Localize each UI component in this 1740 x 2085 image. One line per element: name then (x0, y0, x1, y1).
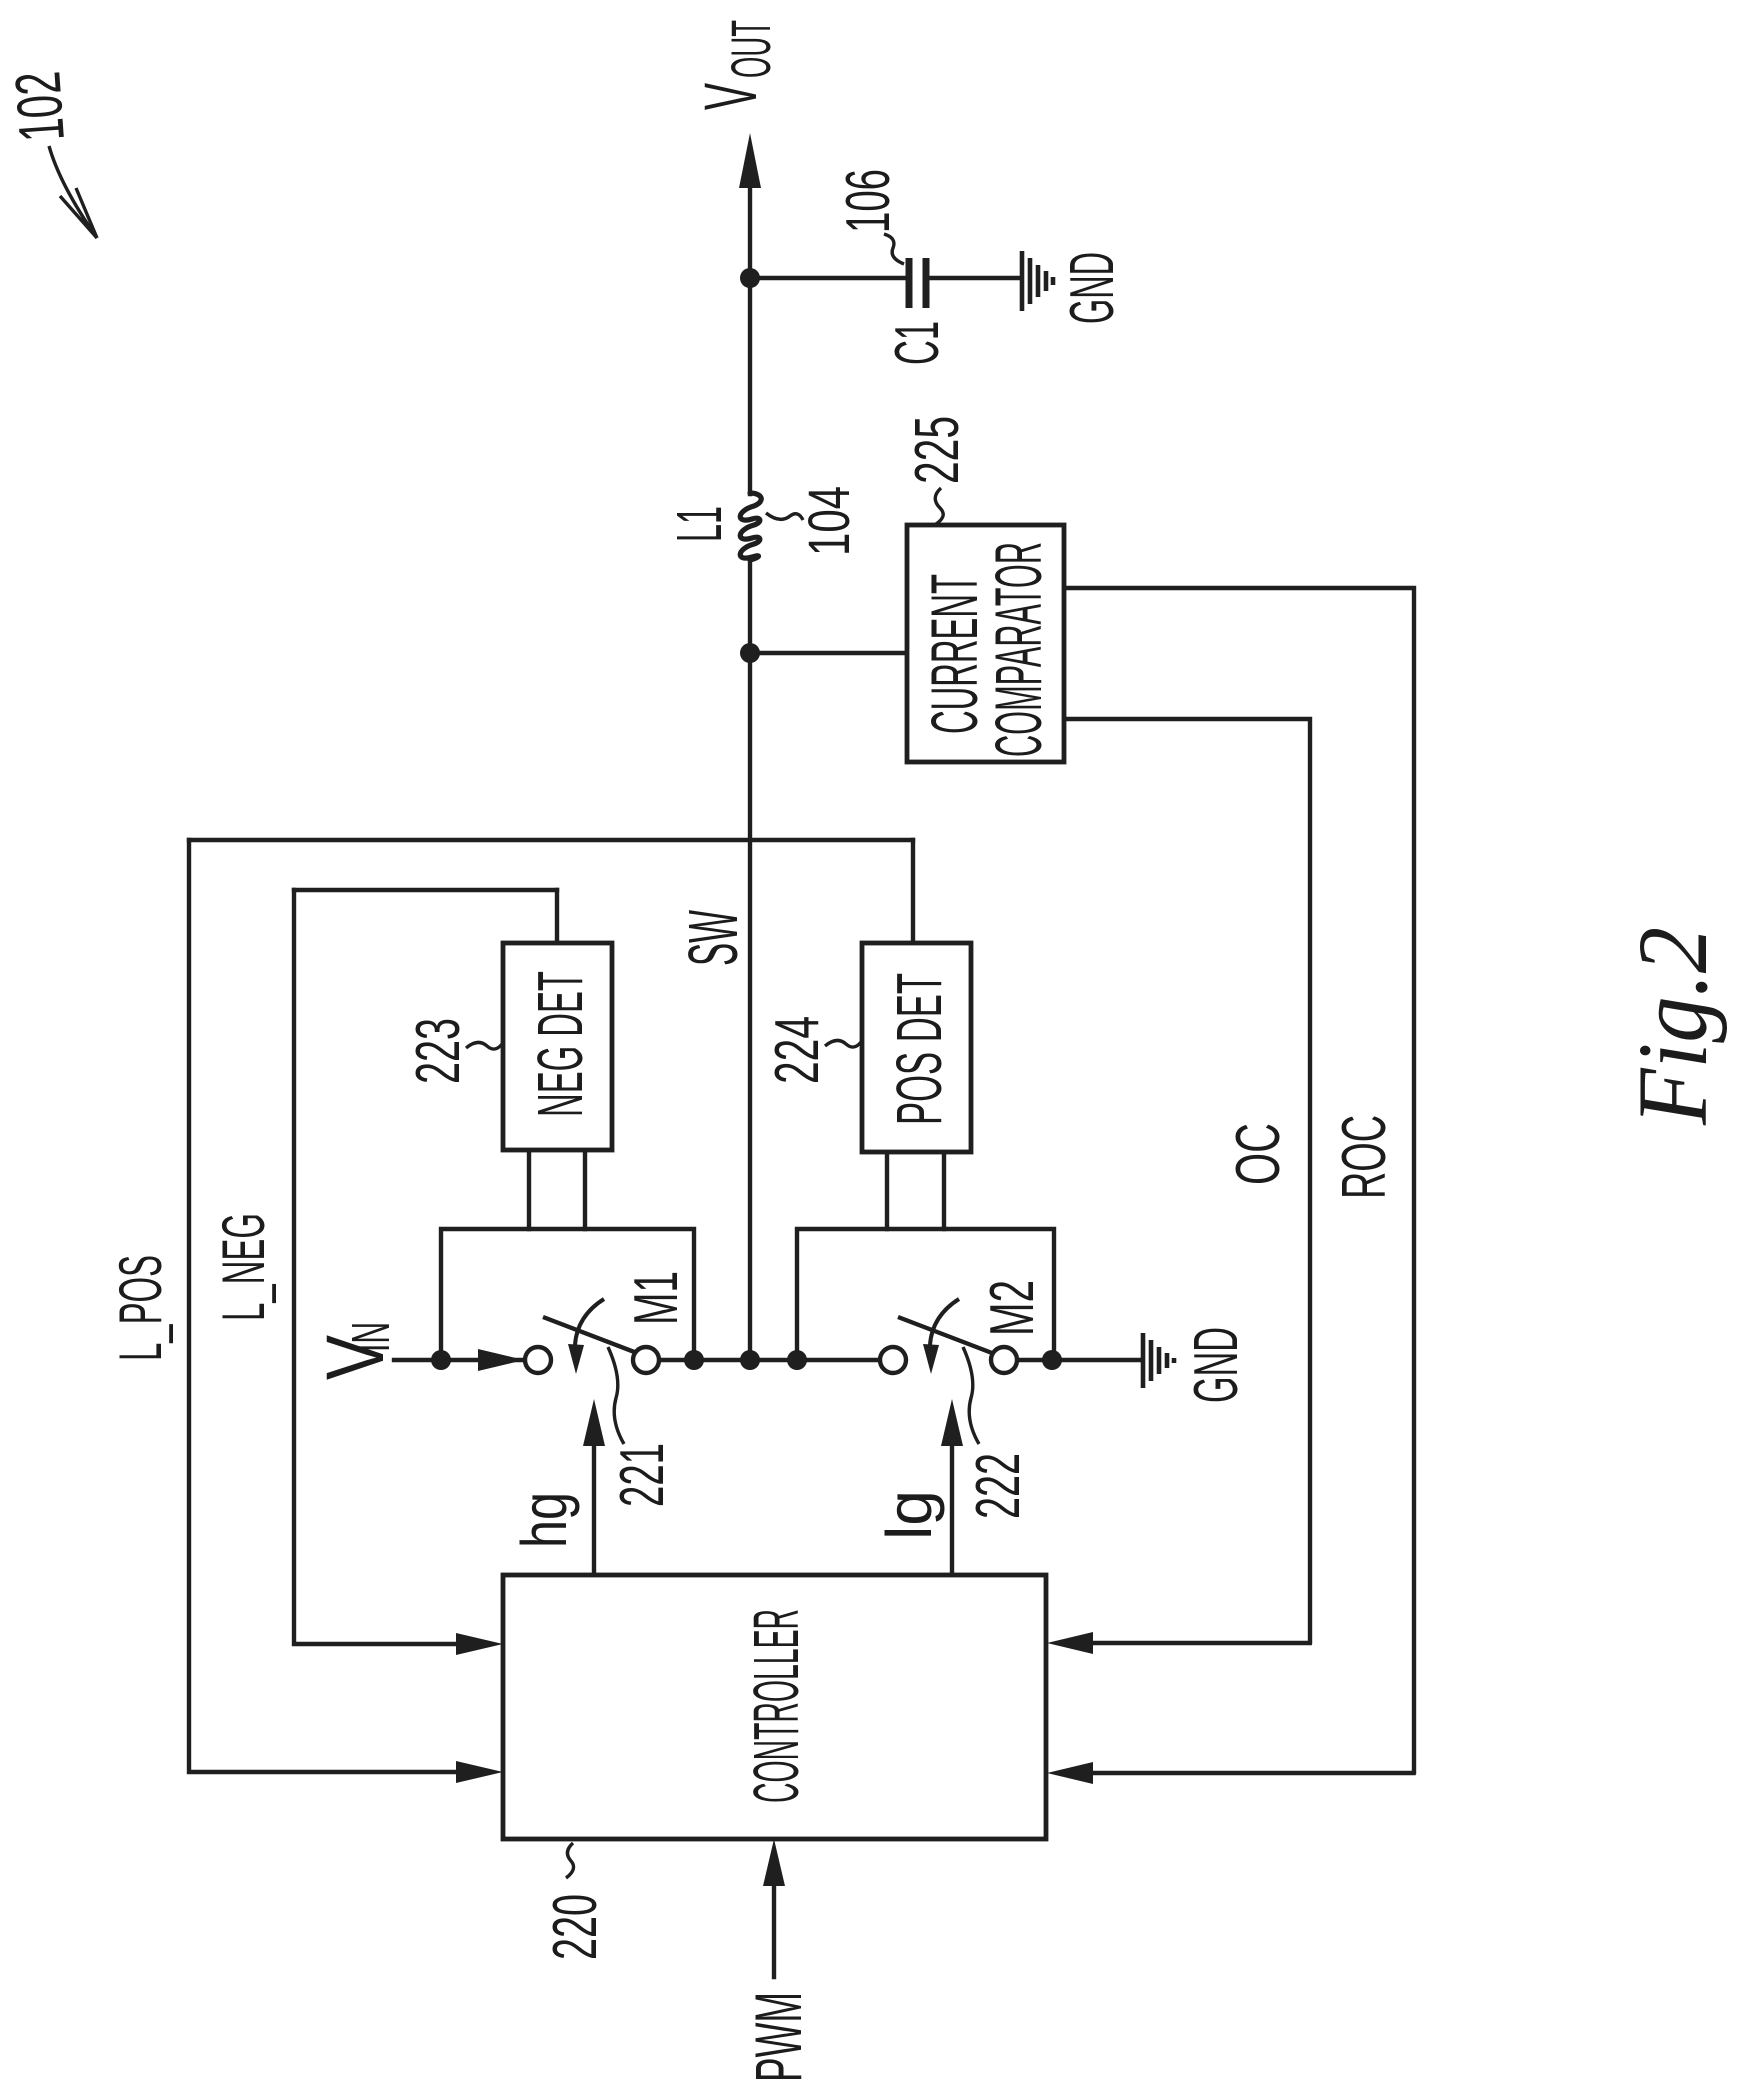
wire SW node to current comparator input (750, 651, 907, 655)
wire L_POS loop top (189, 838, 913, 842)
junction node at SW / comparator tap (740, 643, 760, 663)
wire L_NEG left rail (294, 890, 456, 1644)
box controller 220 (503, 1575, 1046, 1839)
wire M1 sense bracket (441, 1229, 694, 1360)
leader squiggle for 225 (935, 488, 943, 524)
svg-text:102: 102 (1, 69, 78, 144)
svg-text:OUT: OUT (719, 20, 782, 78)
wire NEG DET bottom stub left (527, 1150, 531, 1229)
svg-text:Fig.2: Fig.2 (1617, 927, 1728, 1126)
svg-text:221: 221 (608, 1443, 677, 1507)
switch M1 actuation arc arrow (575, 1299, 604, 1345)
wire VIN lead to M1 left contact (394, 1358, 525, 1362)
wire node Vout to C1 (750, 276, 906, 280)
arrowhead ROC into controller (1047, 1762, 1093, 1784)
wire NEG DET bottom stub right (583, 1150, 587, 1229)
svg-text:L_NEG: L_NEG (210, 1213, 277, 1321)
box NEG DET 223 (503, 943, 612, 1150)
leader squiggle for 104 (766, 513, 803, 520)
wire L_POS left rail (189, 840, 456, 1772)
svg-text:hg: hg (508, 1492, 580, 1548)
wire PWM input lead (772, 1884, 776, 1977)
arrowhead hg up (583, 1399, 605, 1446)
svg-text:224: 224 (763, 1016, 832, 1084)
svg-text:220: 220 (541, 1894, 610, 1960)
wire M2 sense bracket (797, 1229, 1054, 1360)
svg-text:223: 223 (404, 1018, 473, 1084)
svg-text:COMPARATOR: COMPARATOR (981, 542, 1055, 757)
svg-text:M2: M2 (978, 1280, 1047, 1336)
leader squiggle for 106 (884, 234, 904, 264)
svg-text:V: V (689, 83, 772, 110)
arrowhead L_POS into controller (456, 1761, 503, 1783)
wire L_NEG loop top (294, 888, 557, 892)
wire C1 to ground (929, 276, 1020, 280)
svg-text:ROC: ROC (1330, 1115, 1399, 1199)
svg-text:GND: GND (1058, 252, 1127, 324)
arrowhead OC into controller (1047, 1632, 1093, 1654)
wire M2 right contact to ground (1017, 1358, 1141, 1362)
wire L_NEG drop to NEG DET top (555, 890, 559, 943)
wire OC from comparator to controller (1064, 719, 1310, 1643)
arrowhead lg up (941, 1399, 963, 1446)
wire Vout vertical lead (748, 186, 752, 278)
svg-text:PWM: PWM (741, 1992, 815, 2082)
leader squiggle for 220 (566, 1843, 574, 1878)
wire Vout node down to inductor L1 (748, 278, 752, 494)
svg-text:IN: IN (341, 1322, 401, 1352)
switch M2 contact right (991, 1347, 1017, 1373)
junction node M2 bracket right / gnd (1042, 1350, 1062, 1370)
switch M1 blade (543, 1317, 637, 1353)
arrowhead PWM up (763, 1839, 785, 1886)
leader squiggle for 221 (608, 1347, 624, 1444)
wire POS DET bottom stub left (885, 1152, 889, 1229)
svg-text:lg: lg (873, 1490, 945, 1540)
junction node at Vout (740, 268, 760, 288)
svg-text:M1: M1 (622, 1271, 691, 1325)
svg-text:NEG DET: NEG DET (524, 971, 596, 1117)
wire SW vertical down to switch midpoint (748, 653, 752, 1360)
wire M1 right contact to M2 left contact (659, 1358, 880, 1362)
svg-text:C1: C1 (883, 321, 952, 365)
switch M2 contact left (880, 1347, 906, 1373)
box POS DET 224 (862, 943, 971, 1152)
leader squiggle for 102 with open arrowhead (49, 146, 97, 238)
wire lg gate drive (950, 1444, 954, 1575)
wire POS DET bottom stub right (942, 1152, 946, 1229)
arrowhead VIN toward M1 (478, 1349, 524, 1371)
switch M2 actuation arc arrow (930, 1299, 959, 1345)
switch M2 blade (898, 1317, 992, 1353)
svg-text:CURRENT: CURRENT (917, 574, 991, 734)
ground symbol at M2 (1143, 1333, 1174, 1388)
wire hg gate drive (592, 1444, 596, 1575)
wire inductor bottom to SW node (748, 560, 752, 653)
leader squiggle for 222 (963, 1347, 979, 1444)
junction node VIN / M1 bracket left (431, 1350, 451, 1370)
svg-text:L_POS: L_POS (107, 1255, 174, 1361)
svg-text:106: 106 (834, 169, 903, 233)
wire ROC from comparator to controller (1064, 588, 1414, 1773)
leader squiggle for 223 (466, 1042, 502, 1049)
capacitor C1 (909, 258, 926, 308)
box current comparator 225 (907, 525, 1064, 762)
switch M1 contact right (633, 1347, 659, 1373)
arrowhead Vout (739, 133, 761, 188)
inductor L1 (740, 493, 761, 560)
junction node SW at switch line (740, 1350, 760, 1370)
svg-text:GND: GND (1182, 1327, 1251, 1403)
svg-text:SW: SW (674, 910, 752, 966)
svg-text:CONTROLLER: CONTROLLER (740, 1609, 812, 1803)
arrowhead L_NEG into controller (456, 1633, 503, 1655)
svg-text:104: 104 (797, 486, 862, 556)
junction node M1 bracket right (684, 1350, 704, 1370)
leader squiggle for 224 (825, 1040, 861, 1047)
svg-text:L1: L1 (663, 506, 735, 542)
svg-text:222: 222 (964, 1453, 1033, 1519)
ground symbol at C1 (1022, 251, 1053, 311)
svg-text:225: 225 (903, 416, 972, 484)
svg-text:OC: OC (1224, 1123, 1293, 1185)
switch M1 contact left (525, 1347, 551, 1373)
wire L_POS drop to POS DET top (911, 840, 915, 943)
svg-text:POS DET: POS DET (883, 973, 955, 1125)
junction node M2 bracket left (787, 1350, 807, 1370)
